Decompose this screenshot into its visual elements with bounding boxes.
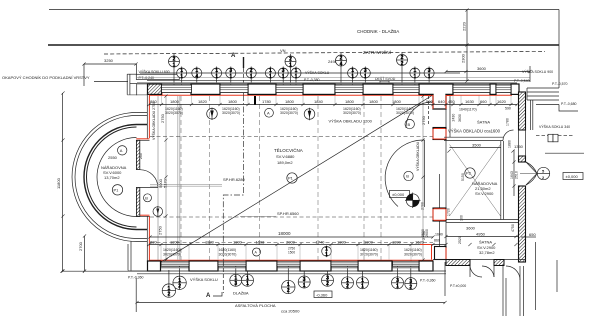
svg-text:860: 860 xyxy=(434,239,440,243)
svg-text:1: 1 xyxy=(325,252,328,258)
svg-text:4750: 4750 xyxy=(511,224,515,232)
svg-text:-0,360: -0,360 xyxy=(316,292,328,297)
annex right wall xyxy=(519,92,526,262)
apse outer wall arcs xyxy=(84,125,147,230)
svg-text:SP.HR.6280: SP.HR.6280 xyxy=(223,177,245,182)
svg-text:650: 650 xyxy=(529,232,536,237)
svg-text:3020(3070): 3020(3070) xyxy=(360,253,378,257)
rotated labels right wall xyxy=(415,114,536,237)
svg-text:3020(3070): 3020(3070) xyxy=(396,111,414,115)
svg-text:P.T.-0,360: P.T.-0,360 xyxy=(420,279,436,283)
svg-text:2510: 2510 xyxy=(515,171,519,179)
svg-text:1698: 1698 xyxy=(256,239,266,244)
top wall sill line xyxy=(137,82,517,84)
north symbol gym xyxy=(405,193,421,209)
axis line top row xyxy=(140,72,460,74)
svg-text:11800: 11800 xyxy=(56,177,61,189)
svg-text:1: 1 xyxy=(282,74,285,80)
svg-text:2: 2 xyxy=(168,291,171,297)
svg-text:B: B xyxy=(408,122,411,127)
svg-text:2: 2 xyxy=(178,284,181,290)
svg-text:5170: 5170 xyxy=(163,178,168,188)
svg-text:P2: P2 xyxy=(466,171,472,176)
svg-text:2750: 2750 xyxy=(160,113,165,123)
svg-text:1620(1160): 1620(1160) xyxy=(163,248,181,252)
axis bubbles lower row xyxy=(177,67,434,86)
dimension 3600 top xyxy=(446,66,530,72)
svg-text:A: A xyxy=(120,148,123,153)
label 3500 xyxy=(450,114,524,181)
circle B right lower xyxy=(404,171,413,180)
left wall upper xyxy=(146,93,148,139)
svg-text:1800: 1800 xyxy=(392,239,402,244)
bottom window red jambs xyxy=(161,260,411,268)
top wall red inner line xyxy=(149,94,432,96)
svg-text:P.T.-0,360: P.T.-0,360 xyxy=(128,276,144,280)
svg-text:590: 590 xyxy=(505,107,511,111)
label SP.HR.6560 xyxy=(240,211,299,217)
svg-text:DLAŽBA: DLAŽBA xyxy=(233,291,249,296)
svg-text:32,78m2: 32,78m2 xyxy=(479,250,495,255)
circle B right upper xyxy=(405,119,414,128)
left rotated dims xyxy=(151,102,426,240)
svg-text:2000: 2000 xyxy=(286,239,296,244)
circle A apse xyxy=(108,146,143,160)
svg-text:VÝŠKA SOKLU: VÝŠKA SOKLU xyxy=(305,70,330,75)
svg-text:ASFALTOVÁ PLOCHA: ASFALTOVÁ PLOCHA xyxy=(235,303,276,308)
bottom overall dim xyxy=(136,278,445,314)
svg-text:1800: 1800 xyxy=(285,99,295,104)
svg-text:P.T.-0,380: P.T.-0,380 xyxy=(304,78,320,82)
NE corner T block xyxy=(419,84,453,109)
label SATNA lower xyxy=(477,240,496,256)
bottom wall piers xyxy=(148,261,434,271)
axis bubble U2 xyxy=(285,54,296,85)
grid line gray pair xyxy=(178,96,180,260)
right interior dim vertical xyxy=(422,96,424,260)
svg-text:1: 1 xyxy=(295,74,298,80)
annex right door arcs xyxy=(520,162,537,185)
top sub dims xyxy=(165,107,511,116)
svg-text:1640(1170): 1640(1170) xyxy=(459,108,477,112)
svg-text:3020(3070): 3020(3070) xyxy=(222,111,240,115)
railing symbol right xyxy=(536,134,574,142)
apse sidewalk arcs xyxy=(72,113,147,271)
annex bottom wall xyxy=(433,260,526,266)
svg-text:1: 1 xyxy=(361,284,364,290)
label DEST SVOD xyxy=(375,76,396,85)
svg-text:ZATRAVNĚNÍ: ZATRAVNĚNÍ xyxy=(363,48,392,55)
ground line 2 xyxy=(137,273,446,275)
svg-text:1880: 1880 xyxy=(508,140,512,148)
svg-text:3020(3070): 3020(3070) xyxy=(165,111,183,115)
axis bubble U1 xyxy=(169,54,180,85)
interior dashed horizontals xyxy=(150,137,433,243)
label NARADOVNA annex xyxy=(472,181,498,196)
svg-text:18000: 18000 xyxy=(278,231,291,236)
svg-text:2: 2 xyxy=(346,284,349,290)
svg-text:A: A xyxy=(255,251,258,255)
circle A bottom chain xyxy=(253,248,261,256)
svg-text:1800: 1800 xyxy=(233,240,243,245)
svg-text:3020(3070): 3020(3070) xyxy=(219,253,237,257)
svg-text:VÝŠKA OBKLADU 2750: VÝŠKA OBKLADU 2750 xyxy=(151,102,156,140)
svg-text:3600: 3600 xyxy=(477,66,487,71)
steps top right xyxy=(527,88,559,130)
svg-text:SP.HR.6560: SP.HR.6560 xyxy=(277,211,299,216)
top window red jambs xyxy=(162,92,419,95)
left interior dim verticals xyxy=(158,96,166,260)
svg-text:1: 1 xyxy=(173,62,176,68)
right border vertical xyxy=(558,10,560,89)
circle P1 gym xyxy=(287,173,297,183)
annex divider wall SATNA/NARADOVNA xyxy=(444,130,514,141)
svg-text:2520: 2520 xyxy=(458,236,462,244)
svg-text:3600: 3600 xyxy=(466,226,476,231)
label VYSKA SOKLU 900 xyxy=(514,69,578,111)
interior vertical thin lines xyxy=(181,96,381,260)
naradovna X braces xyxy=(450,145,501,217)
naradovna right wall xyxy=(501,141,504,220)
svg-text:1: 1 xyxy=(250,74,253,80)
dimension 3250 top left xyxy=(84,58,136,86)
left dim 11800 xyxy=(56,93,63,271)
section line jog inside gym xyxy=(223,95,243,262)
svg-text:1780: 1780 xyxy=(262,99,272,104)
ground line bottom full xyxy=(128,270,446,272)
svg-text:4950: 4950 xyxy=(476,232,486,237)
svg-text:1: 1 xyxy=(229,74,232,80)
svg-text:VN: VN xyxy=(280,48,286,53)
svg-text:1630: 1630 xyxy=(465,99,475,104)
svg-text:1800: 1800 xyxy=(170,240,180,245)
svg-text:1620: 1620 xyxy=(497,99,507,104)
left wall lower xyxy=(146,216,148,262)
svg-text:1800: 1800 xyxy=(392,99,402,104)
circle P1 apse xyxy=(112,185,122,195)
right wall dim 1643/2510 xyxy=(510,150,519,196)
svg-text:2700: 2700 xyxy=(78,241,83,251)
svg-text:1: 1 xyxy=(180,74,183,80)
svg-text:1820: 1820 xyxy=(198,99,208,104)
section A marker bottom xyxy=(206,262,223,299)
svg-text:±0,000: ±0,000 xyxy=(392,192,405,197)
svg-text:3020(3070): 3020(3070) xyxy=(280,111,298,115)
witness line 3250 right xyxy=(136,64,138,74)
ground line left xyxy=(62,270,147,272)
svg-text:±0,000: ±0,000 xyxy=(566,174,579,179)
drain symbol apse xyxy=(153,206,163,217)
gym right wall xyxy=(420,109,446,260)
svg-text:3020(3070): 3020(3070) xyxy=(404,253,422,257)
label VYSKA SOKLU 600 box xyxy=(136,69,179,80)
svg-text:1800: 1800 xyxy=(170,99,180,104)
bottom sub dims xyxy=(163,233,462,257)
svg-text:2750: 2750 xyxy=(158,225,163,235)
svg-text:880: 880 xyxy=(150,240,157,245)
svg-text:1: 1 xyxy=(246,281,249,287)
annex doors bottom xyxy=(470,266,494,277)
svg-text:13,70m2: 13,70m2 xyxy=(104,175,120,180)
svg-text:1840: 1840 xyxy=(314,99,324,104)
circle 5/2 right xyxy=(537,167,549,180)
svg-text:1640: 1640 xyxy=(435,233,443,237)
svg-text:5: 5 xyxy=(542,169,545,174)
svg-text:1800: 1800 xyxy=(369,99,379,104)
svg-text:1820: 1820 xyxy=(205,239,215,244)
svg-text:1800: 1800 xyxy=(345,99,355,104)
labels PT bottom right xyxy=(420,262,466,296)
svg-text:3020(3070): 3020(3070) xyxy=(343,111,361,115)
bottom wall red inner line xyxy=(149,259,433,261)
svg-text:VÝŠKA OBKLADU: VÝŠKA OBKLADU xyxy=(415,141,420,171)
VN dashed utility line xyxy=(104,52,545,55)
leader line xyxy=(94,81,128,83)
svg-text:1: 1 xyxy=(364,74,367,80)
svg-text:1620(1160): 1620(1160) xyxy=(404,248,422,252)
svg-text:VÝŠKA OBKLADU cca1600: VÝŠKA OBKLADU cca1600 xyxy=(448,129,501,134)
svg-text:660: 660 xyxy=(480,99,487,104)
svg-text:3020(3070): 3020(3070) xyxy=(163,253,181,257)
bottom windows xyxy=(161,261,419,266)
apse bottom stub xyxy=(136,215,149,216)
svg-text:1: 1 xyxy=(351,74,354,80)
bold section tick on chain xyxy=(254,96,256,105)
right outer edge line xyxy=(556,260,558,292)
svg-text:DEŠŤ SVOD: DEŠŤ SVOD xyxy=(375,76,396,81)
svg-text:1: 1 xyxy=(414,74,417,80)
svg-text:1720: 1720 xyxy=(447,208,451,216)
svg-text:B: B xyxy=(406,174,409,179)
svg-text:4: 4 xyxy=(195,74,198,80)
svg-text:SV.V.6880: SV.V.6880 xyxy=(276,154,295,159)
circle P2 xyxy=(465,168,475,178)
svg-text:5150: 5150 xyxy=(461,173,465,181)
18000 dim xyxy=(150,231,433,237)
svg-text:1: 1 xyxy=(396,284,399,290)
top wall piers xyxy=(148,84,520,94)
label NARADOVNA apse xyxy=(101,165,127,180)
line right mid xyxy=(545,152,584,154)
wall line x535 xyxy=(535,242,537,310)
svg-text:CHODNIK - DLAŽBA: CHODNIK - DLAŽBA xyxy=(357,27,399,34)
circle A top interior xyxy=(265,108,274,117)
axis bubble U4 xyxy=(397,53,408,86)
annex wall NARADOVNA/SATNA2 xyxy=(446,220,521,223)
svg-text:2750: 2750 xyxy=(421,115,426,125)
svg-text:1800: 1800 xyxy=(364,239,374,244)
svg-text:2: 2 xyxy=(326,281,329,287)
drain symbol gym top xyxy=(207,108,218,121)
corner pilaster top-left xyxy=(127,74,147,95)
box -0,360 xyxy=(314,291,332,298)
witness line 3600 xyxy=(529,66,531,82)
svg-text:1: 1 xyxy=(289,62,292,68)
witness stubs at window edges xyxy=(161,96,511,260)
svg-text:2220: 2220 xyxy=(462,21,467,31)
svg-text:P1: P1 xyxy=(114,188,120,193)
bottom dim chain xyxy=(149,239,446,244)
apse door arc xyxy=(140,170,158,188)
sidewalk edge line above wall xyxy=(147,80,530,82)
svg-text:1: 1 xyxy=(215,74,218,80)
axis bubbles bottom row xyxy=(162,262,417,297)
svg-text:100: 100 xyxy=(460,215,464,221)
svg-text:P1: P1 xyxy=(288,176,294,181)
svg-text:1: 1 xyxy=(269,74,272,80)
apse top stub xyxy=(136,139,149,141)
apse inner arc xyxy=(97,138,136,217)
bottom sill gray line xyxy=(149,267,433,269)
svg-text:3250: 3250 xyxy=(104,58,114,63)
svg-text:640: 640 xyxy=(438,99,445,104)
gym door to annex leaf+arc xyxy=(385,140,424,207)
svg-text:1620: 1620 xyxy=(415,240,425,245)
apse chord wall xyxy=(136,140,139,216)
label TELOCVICNA xyxy=(274,146,303,165)
svg-text:A: A xyxy=(231,53,236,59)
axis bubble U3 xyxy=(336,53,347,85)
svg-text:1643: 1643 xyxy=(510,171,514,179)
left dim 2700 xyxy=(78,236,85,271)
svg-text:2: 2 xyxy=(542,175,545,180)
label SP.HR.6080 xyxy=(150,177,245,186)
svg-text:4: 4 xyxy=(340,61,343,67)
svg-text:2550: 2550 xyxy=(108,155,118,160)
svg-text:1740: 1740 xyxy=(316,239,326,244)
svg-text:VÝŠKA SOKLU 900: VÝŠKA SOKLU 900 xyxy=(522,69,553,74)
box +-0,000 gym xyxy=(390,191,410,198)
dimension 2220/2300 vertical right xyxy=(461,10,468,81)
corridor walls down xyxy=(503,266,524,316)
svg-text:A: A xyxy=(267,111,270,116)
svg-text:A: A xyxy=(206,293,211,299)
circle B bottom chain xyxy=(322,246,332,259)
svg-text:cca 20500: cca 20500 xyxy=(281,309,300,314)
svg-text:3630: 3630 xyxy=(458,114,462,122)
box +-0,000 right xyxy=(563,173,583,180)
circle B apse xyxy=(144,194,152,202)
svg-text:590: 590 xyxy=(426,99,433,104)
svg-text:1800: 1800 xyxy=(228,99,238,104)
long diagonal xyxy=(161,96,432,263)
svg-text:2600: 2600 xyxy=(425,229,429,237)
svg-text:1780: 1780 xyxy=(506,118,510,126)
svg-text:VÝŠKA OBKLADU 1200: VÝŠKA OBKLADU 1200 xyxy=(329,119,373,124)
dimension tick slashes xyxy=(60,8,531,304)
svg-text:1800: 1800 xyxy=(337,239,347,244)
svg-text:2300: 2300 xyxy=(461,53,466,63)
svg-text:SV.V.2900: SV.V.2900 xyxy=(475,191,494,196)
secondary line under bubbles xyxy=(137,77,530,79)
svg-text:2700: 2700 xyxy=(421,202,425,210)
svg-text:2: 2 xyxy=(409,284,412,290)
svg-text:1500: 1500 xyxy=(288,251,295,255)
svg-text:3: 3 xyxy=(234,281,237,287)
svg-text:1620(1160): 1620(1160) xyxy=(219,248,237,252)
top windows xyxy=(162,85,512,93)
satna1 left inner face xyxy=(449,96,451,137)
gym top door arc xyxy=(406,96,432,128)
label SATNA upper xyxy=(448,120,501,134)
svg-text:TĚLOCVIČNA: TĚLOCVIČNA xyxy=(274,146,303,153)
svg-text:3500: 3500 xyxy=(472,142,482,147)
sidewalk top line 2 xyxy=(48,44,559,46)
svg-text:P.T.-0,680: P.T.-0,680 xyxy=(561,102,577,106)
svg-text:1: 1 xyxy=(303,283,306,289)
label VYSKA SOKLU / PT-0380 xyxy=(304,70,330,82)
svg-text:VÝŠKA SOKLU 340: VÝŠKA SOKLU 340 xyxy=(539,124,570,129)
svg-text:OKAPOVÝ CHODNÍK DO PODKLADNÍ V: OKAPOVÝ CHODNÍK DO PODKLADNÍ VRSTVY xyxy=(2,75,90,80)
svg-text:1: 1 xyxy=(428,74,431,80)
svg-text:189,0m2: 189,0m2 xyxy=(277,160,293,165)
svg-text:2430: 2430 xyxy=(452,114,456,122)
svg-text:ŠATNA: ŠATNA xyxy=(479,240,492,245)
top dim chain xyxy=(149,99,517,105)
svg-text:1620(1160): 1620(1160) xyxy=(360,248,378,252)
section A marker top xyxy=(231,53,244,95)
svg-text:VÝŠKA SOKLU: VÝŠKA SOKLU xyxy=(190,277,218,282)
svg-text:B: B xyxy=(145,196,148,201)
svg-text:ŠATNA: ŠATNA xyxy=(477,120,490,125)
svg-text:200: 200 xyxy=(139,153,143,159)
svg-text:2: 2 xyxy=(401,61,404,67)
sidewalk top line 1 xyxy=(49,9,559,11)
svg-text:P.T.-0,570: P.T.-0,570 xyxy=(552,82,568,86)
label 3600 / 4950 xyxy=(446,226,520,237)
svg-text:P.T.±0,000: P.T.±0,000 xyxy=(450,284,466,288)
svg-text:2: 2 xyxy=(287,288,290,294)
drain symbol gym top 2 xyxy=(304,108,315,121)
